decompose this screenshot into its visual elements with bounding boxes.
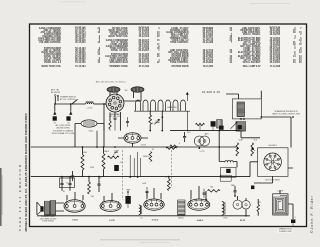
svg-text:PAGE 23-14 EMERSON: PAGE 23-14 EMERSON [18, 163, 22, 231]
speaker field coil L4 [44, 201, 49, 215]
svg-text:CONNECTIONS: CONNECTIONS [279, 231, 292, 233]
resistor R12 [167, 179, 170, 191]
svg-text:6 T02: 6 T02 [72, 220, 78, 222]
wire drops to condensers [55, 104, 71, 112]
tube V3 twin [194, 136, 204, 146]
condenser C7 [71, 176, 74, 177]
black blob C16 [238, 125, 242, 129]
wire chain drop [150, 111, 162, 131]
tube V7 [188, 199, 210, 210]
socket wheel [264, 153, 282, 171]
resistor R5 [108, 156, 120, 159]
resistor R7 [166, 147, 177, 149]
parts list columns [38, 27, 302, 68]
ballast resistor 6252 [81, 120, 97, 127]
heater chain coils [136, 100, 141, 111]
wire right verticals [246, 162, 258, 216]
svg-text:25M: 25M [90, 167, 94, 169]
svg-text:5 Y76: 5 Y76 [200, 151, 205, 153]
svg-text:WITH 0 SIGNAL 117 V. LINE: WITH 0 SIGNAL 117 V. LINE [52, 132, 75, 135]
resistor R8 [170, 145, 177, 147]
tube V8 rectifier [233, 200, 242, 209]
electrolytic C13 [125, 196, 130, 204]
svg-text:AT VOL. CONTROL: AT VOL. CONTROL [60, 98, 76, 101]
top edge streaks [250, 2, 290, 5]
svg-text:90-11,33418-11,98052-12,62640-: 90-11,33418-11,98052-12,62640-18,78572-1… [270, 27, 281, 64]
left margin page label [18, 163, 22, 231]
svg-text:PAD: PAD [231, 184, 236, 187]
osc coil can L3 [131, 87, 144, 92]
left margin model label [24, 113, 28, 232]
tube V5 [100, 201, 121, 212]
svg-text:6 A8 G: 6 A8 G [197, 219, 204, 222]
svg-text:.05: .05 [67, 122, 69, 124]
resistor R14 [257, 205, 259, 212]
svg-text:ANT. 1ST DET.-OSC. I.F. 456: ANT. 1ST DET.-OSC. I.F. 456 K.C. [96, 81, 127, 84]
loop antenna [273, 194, 288, 215]
wire socket leads [250, 162, 293, 183]
wire bottom bus [31, 176, 250, 178]
coil L8 [225, 161, 233, 163]
plug label [278, 227, 294, 232]
T2 terminals [240, 118, 242, 120]
svg-text:500: 500 [125, 90, 128, 92]
wire speaker [48, 203, 64, 216]
svg-text:6 V6 G: 6 V6 G [152, 219, 159, 221]
bypass condenser C4 [211, 121, 216, 126]
border frame [30, 24, 307, 227]
resistor R13 [208, 190, 221, 193]
svg-text:HEATERS: HEATERS [167, 106, 177, 109]
wire ballast leads [75, 124, 104, 148]
junction dot [161, 116, 163, 118]
svg-text:LINE CORD RES.RESISTOR 2 MEG.L: LINE CORD RES.RESISTOR 2 MEG.LINE CORD R… [238, 28, 261, 64]
svg-text:SOCKET: SOCKET [268, 145, 277, 147]
svg-text:32,928 & 45: 32,928 & 45 [75, 27, 87, 29]
resistor R6 [149, 152, 152, 162]
antenna terminals [55, 95, 57, 97]
tube V1 1st det-osc [106, 94, 124, 112]
condenser C21 [203, 193, 206, 194]
wire V1 drops [104, 104, 120, 147]
gang dash link [122, 150, 124, 200]
bottom margin smudge [100, 239, 180, 240]
wire long bus [31, 146, 236, 148]
wire mid bus [170, 130, 240, 132]
svg-text:.05: .05 [66, 183, 68, 185]
svg-text:©John F. Rider: ©John F. Rider [310, 195, 314, 233]
svg-text:FILTER COND.WAVE TRAP COILPADD: FILTER COND.WAVE TRAP COILPADDING COND.O… [105, 28, 128, 64]
scan edge shadow [0, 168, 3, 226]
condenser C11 [68, 183, 71, 184]
svg-text:L1 500: L1 500 [87, 107, 93, 109]
condenser C1 [53, 116, 57, 120]
trimmer C5 [113, 150, 118, 155]
svg-text:OSC.: OSC. [223, 217, 228, 219]
osc coil L7 [222, 202, 224, 216]
choke L5 [139, 205, 141, 215]
svg-text:LOOP: LOOP [278, 191, 284, 193]
svg-text:.05: .05 [53, 122, 55, 124]
svg-text:32,928 & 45: 32,928 & 45 [269, 27, 281, 29]
i.f. transformer T2 box [232, 99, 261, 119]
wire V2 leads [118, 138, 148, 147]
condenser C2 [66, 116, 70, 120]
wire antenna run [55, 96, 85, 104]
resistor R9 [236, 143, 239, 156]
tube V4 [64, 200, 85, 212]
svg-text:1MEG: 1MEG [143, 156, 149, 158]
junction arrow B [69, 111, 72, 114]
svg-text:25 Z5: 25 Z5 [240, 220, 246, 222]
wire cans to tube [110, 92, 141, 101]
svg-text:44-27,32497-20,96317-17,94114-: 44-27,32497-20,96317-17,94114-20,51044-1… [139, 27, 150, 64]
resistor R4 [102, 154, 105, 170]
line condenser C15 [291, 219, 295, 223]
trimmer C3 [155, 119, 161, 124]
electrolytic C6 [114, 165, 119, 171]
svg-text:BK GN RD: BK GN RD [51, 92, 61, 94]
svg-text:2M: 2M [91, 196, 94, 198]
condenser C10 [60, 183, 63, 184]
svg-text:50M: 50M [83, 152, 87, 154]
micro labels [62, 106, 296, 219]
switch S1 arm [73, 99, 78, 103]
speaker SP1 [36, 202, 38, 215]
svg-text:50M: 50M [239, 140, 243, 142]
condenser C22 [251, 186, 254, 190]
IF can L6 [178, 200, 185, 215]
svg-text:6 Y02: 6 Y02 [109, 220, 115, 222]
gang dash link 2 [170, 150, 172, 188]
antenna coil L1 [86, 103, 94, 104]
volume control R10 [251, 143, 254, 156]
heater chain base wire [134, 110, 190, 112]
condenser C18 [113, 118, 116, 119]
socket box [258, 148, 288, 177]
wire tube drops [67, 186, 246, 202]
wire bottom rail [37, 215, 250, 217]
wires mid verticals [96, 131, 98, 147]
wire coil to 1st det [94, 103, 106, 105]
wire T2 to socket [226, 91, 291, 148]
svg-text:32,928 & 45: 32,928 & 45 [138, 27, 150, 29]
parts list headers [75, 27, 281, 30]
padder trimmer arrow [231, 122, 238, 129]
svg-text:CONE 28-3051: CONE 28-3051 [42, 220, 54, 222]
resistor R2 [196, 123, 205, 125]
svg-text:RADIO VOLUME CONTROL 2996: RADIO VOLUME CONTROL 2996 [272, 112, 300, 115]
blob C17 [219, 126, 224, 130]
wire osc vertical [219, 131, 237, 168]
svg-text:UNLESS NOTED: UNLESS NOTED [56, 128, 70, 130]
pilot arrow [186, 94, 188, 131]
resistor R1 [149, 115, 152, 125]
svg-text:MODELS 32,928 AND 45, Ch. 32,9: MODELS 32,928 AND 45, Ch. 32,928,45 EMER… [24, 113, 28, 232]
grid cap C19 [126, 122, 129, 123]
T2 winding [237, 102, 245, 117]
osc coil can L2 [107, 87, 120, 92]
right margin rider credit [310, 195, 314, 233]
junction arrow A [53, 111, 56, 114]
condenser C14 [233, 191, 236, 192]
svg-text:BOTTOM VIEW: BOTTOM VIEW [266, 179, 280, 181]
condenser C12 [97, 184, 100, 185]
resistor R11 [88, 182, 91, 194]
wire loop leads [280, 190, 293, 219]
wire R3 [82, 147, 84, 177]
condenser box C8 [59, 178, 74, 188]
condenser C9 [183, 137, 186, 138]
svg-text:32,928 & 45: 32,928 & 45 [202, 28, 214, 30]
tube V2 [124, 133, 141, 143]
padder winding L9 [236, 122, 246, 132]
resistor R3 [81, 155, 84, 171]
svg-text:456KC: 456KC [178, 217, 185, 219]
svg-text:5Y7G: 5Y7G [141, 145, 146, 147]
tube V6 [144, 199, 164, 210]
svg-text:32,928 & 45: 32,928 & 45 [202, 90, 221, 94]
box osc [220, 175, 231, 181]
padder box [221, 167, 236, 177]
svg-text:6.3V: 6.3V [152, 123, 157, 125]
svg-text:AVC: AVC [205, 133, 210, 136]
svg-text:2MEG: 2MEG [103, 151, 109, 153]
condenser C20 [146, 191, 149, 192]
resistor R15 [109, 121, 111, 129]
